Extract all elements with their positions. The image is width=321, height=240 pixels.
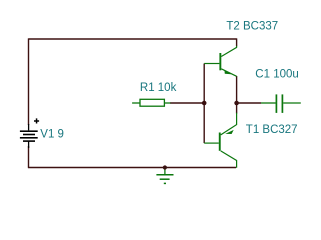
wire R1 to node A (170, 102, 204, 104)
wire left rail lower (28, 146, 30, 168)
wire top rail (29, 38, 237, 40)
svg-text:C1 100u: C1 100u (255, 69, 298, 81)
wire node B to C1 (237, 102, 261, 104)
node B junction dot (234, 101, 239, 106)
transistor T2 (204, 46, 236, 76)
svg-text:T1 BC327: T1 BC327 (246, 124, 298, 136)
svg-text:R1 10k: R1 10k (140, 82, 177, 94)
node A junction dot (202, 101, 207, 106)
wire emitter net vertical (236, 76, 238, 114)
svg-text:V1 9: V1 9 (40, 129, 64, 141)
wire T2 collector drop (236, 38, 238, 46)
capacitor C1 (261, 94, 301, 113)
wire base net vertical (203, 64, 205, 144)
transistor T1 (204, 113, 236, 168)
svg-text:T2 BC337: T2 BC337 (226, 21, 278, 33)
ground (156, 168, 173, 184)
wire left rail upper (28, 38, 30, 125)
wire bottom rail (28, 167, 236, 169)
ground junction dot (163, 165, 167, 169)
battery V1 (20, 118, 39, 148)
resistor R1 (132, 99, 170, 106)
